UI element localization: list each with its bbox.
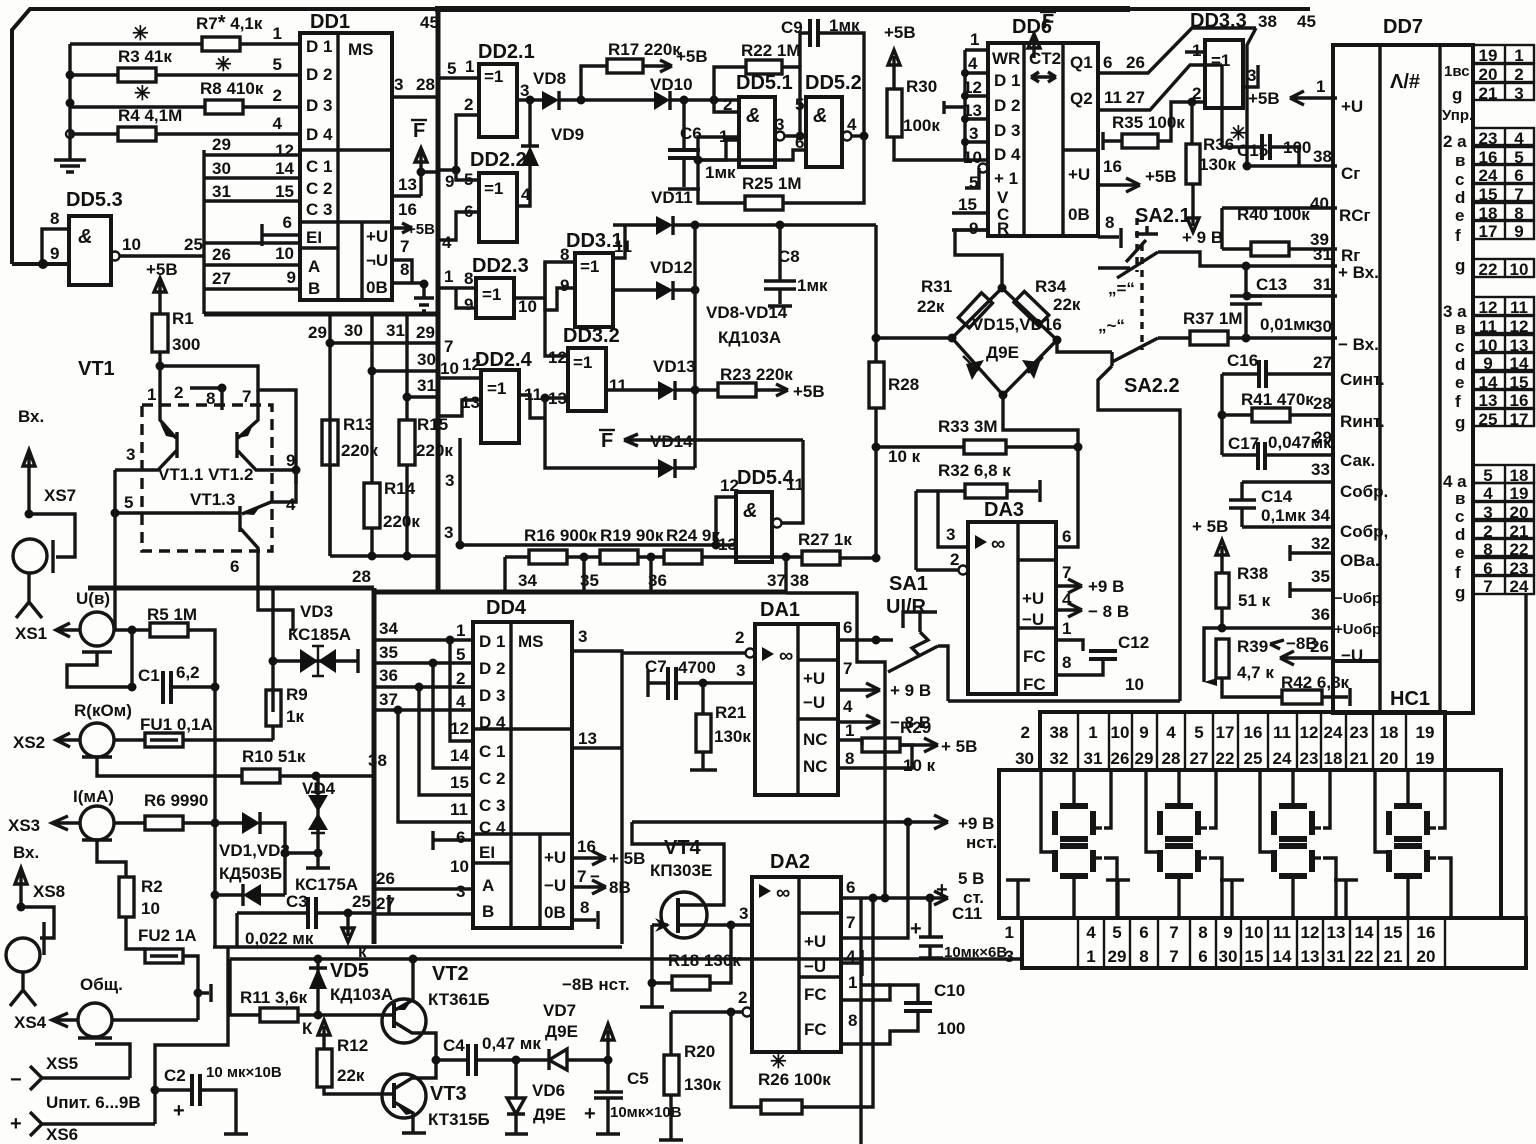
svg-text:FC: FC — [1023, 647, 1046, 666]
svg-text:2: 2 — [174, 383, 183, 402]
svg-text:+5В: +5В — [676, 47, 708, 66]
svg-text:22к: 22к — [1053, 295, 1081, 314]
svg-text:1: 1 — [1514, 46, 1523, 65]
pin box 11|12 — [1473, 316, 1534, 333]
pin box 2|21 — [1473, 521, 1534, 538]
svg-text:R3 41к: R3 41к — [118, 47, 172, 66]
svg-text:1: 1 — [845, 721, 854, 740]
svg-text:VT1.1 VT1.2: VT1.1 VT1.2 — [158, 465, 253, 484]
svg-text:C4: C4 — [443, 1036, 465, 1055]
svg-text:R23 220к: R23 220к — [720, 365, 793, 384]
svg-text:+U: +U — [1341, 97, 1363, 116]
svg-text:+U: +U — [1022, 589, 1044, 608]
svg-text:C 4: C 4 — [479, 818, 506, 837]
svg-text:35: 35 — [379, 643, 398, 662]
7-segment digit 4 — [1394, 803, 1422, 809]
svg-text:Д9Е: Д9Е — [986, 343, 1019, 362]
svg-text:8: 8 — [464, 269, 473, 288]
svg-text:220к: 220к — [341, 441, 378, 460]
svg-text:220к: 220к — [383, 512, 420, 531]
svg-text:„~“: „~“ — [1098, 316, 1125, 335]
svg-text:=1: =1 — [484, 67, 503, 86]
svg-text:2: 2 — [464, 95, 473, 114]
svg-text:15: 15 — [275, 182, 294, 201]
svg-text:29: 29 — [1135, 749, 1154, 768]
pin box 8|22 — [1473, 539, 1534, 556]
svg-text:D 3: D 3 — [306, 96, 332, 115]
svg-text:24: 24 — [1324, 723, 1343, 742]
svg-text:C17: C17 — [1228, 434, 1259, 453]
svg-text:DD2.4: DD2.4 — [475, 349, 533, 371]
svg-text:35: 35 — [1311, 567, 1330, 586]
svg-text:f: f — [1455, 563, 1461, 582]
pin box 25|17 — [1473, 409, 1534, 426]
svg-text:R9: R9 — [286, 685, 308, 704]
svg-text:3: 3 — [394, 75, 403, 94]
svg-text:R31: R31 — [921, 277, 952, 296]
svg-text:Сг: Сг — [1341, 164, 1360, 183]
K arrow down — [342, 913, 354, 942]
svg-text:Собр,: Собр, — [1340, 522, 1388, 541]
svg-text:−U: −U — [803, 693, 825, 712]
svg-text:SA2.2: SA2.2 — [1124, 375, 1180, 397]
svg-text:13: 13 — [963, 101, 982, 120]
svg-text:−U: −U — [804, 957, 826, 976]
top border thick bar — [435, 6, 1130, 12]
svg-text:12: 12 — [1510, 317, 1529, 336]
svg-text:1: 1 — [147, 385, 156, 404]
svg-text:38: 38 — [790, 571, 809, 590]
svg-text:R6 9990: R6 9990 — [144, 791, 208, 810]
svg-text:11: 11 — [1273, 723, 1291, 742]
svg-text:4: 4 — [1166, 723, 1176, 742]
wire VT1 top rail — [160, 366, 296, 484]
resistor R3 — [70, 73, 118, 76]
svg-text:4: 4 — [1086, 923, 1096, 942]
svg-text:12: 12 — [720, 476, 739, 495]
svg-text:Сак.: Сак. — [1340, 451, 1375, 470]
svg-text:0,1мк: 0,1мк — [1261, 506, 1306, 525]
svg-text:26: 26 — [212, 245, 231, 264]
svg-text:R41 470к: R41 470к — [1241, 390, 1314, 409]
node — [66, 71, 75, 80]
svg-text:D 4: D 4 — [306, 125, 333, 144]
svg-text:B: B — [482, 902, 494, 921]
svg-text:EI: EI — [306, 228, 322, 247]
svg-text:10мк×6В: 10мк×6В — [944, 944, 1007, 961]
svg-text:19: 19 — [1416, 723, 1435, 742]
svg-text:3: 3 — [736, 661, 745, 680]
svg-text:нст.: нст. — [966, 833, 997, 852]
svg-text:23: 23 — [1350, 723, 1369, 742]
transistor VT1.1 — [115, 366, 177, 470]
svg-text:∞: ∞ — [779, 645, 793, 667]
svg-text:&: & — [78, 226, 92, 248]
resistor R15 — [399, 420, 415, 465]
svg-text:2 a: 2 a — [1443, 132, 1467, 151]
top border right segment — [1130, 7, 1310, 11]
section boundary — [88, 586, 374, 591]
pin box 9|14 — [1473, 353, 1534, 370]
svg-text:F: F — [413, 120, 425, 142]
pin box 16|5 — [1473, 147, 1534, 164]
svg-text:R30: R30 — [906, 77, 937, 96]
svg-text:+5В: +5В — [1248, 89, 1280, 108]
svg-text:8: 8 — [50, 209, 59, 228]
transistor VT1.2 — [237, 390, 296, 470]
svg-text:+5В: +5В — [884, 23, 916, 42]
svg-text:EI: EI — [479, 843, 495, 862]
pin box 22|10 — [1473, 259, 1534, 277]
svg-text:2: 2 — [273, 86, 282, 105]
common electrodes — [1006, 880, 1030, 918]
svg-text:1вс: 1вс — [1444, 63, 1470, 80]
svg-text:6,2: 6,2 — [176, 663, 200, 682]
svg-text:D 4: D 4 — [994, 145, 1021, 164]
svg-text:2: 2 — [950, 550, 959, 569]
svg-text:XS8: XS8 — [33, 882, 65, 901]
section frame around DA2 — [438, 590, 786, 595]
svg-text:SA1: SA1 — [889, 573, 928, 595]
svg-text:26: 26 — [376, 869, 395, 888]
svg-text:10: 10 — [122, 235, 141, 254]
svg-text:R14: R14 — [384, 479, 416, 498]
svg-text:11: 11 — [1104, 88, 1122, 107]
svg-text:11: 11 — [614, 237, 632, 256]
svg-text:g: g — [1455, 413, 1465, 432]
WR contact — [944, 101, 965, 114]
svg-text:C3: C3 — [286, 892, 308, 911]
pin box 23|4 — [1473, 128, 1534, 145]
svg-text:C11: C11 — [952, 904, 982, 923]
svg-text:4: 4 — [1483, 484, 1493, 503]
svg-text:14: 14 — [275, 159, 294, 178]
svg-text:3: 3 — [969, 124, 978, 143]
svg-text:31: 31 — [417, 376, 436, 395]
svg-text:3: 3 — [444, 523, 453, 542]
svg-text:в: в — [1455, 489, 1465, 508]
svg-text:+U: +U — [1068, 165, 1090, 184]
svg-text:RCг: RCг — [1339, 206, 1371, 225]
svg-text:130к: 130к — [1199, 155, 1236, 174]
svg-text:&: & — [813, 105, 827, 127]
svg-text:C10: C10 — [934, 981, 965, 1000]
svg-text:37: 37 — [767, 571, 786, 590]
svg-text:Rинт.: Rинт. — [1340, 412, 1385, 431]
svg-text:+5В: +5В — [1145, 167, 1177, 186]
svg-text:38: 38 — [368, 751, 387, 770]
HC1 top pin strip — [1040, 712, 1445, 770]
svg-text:DD5.2: DD5.2 — [805, 72, 862, 94]
SA2.2 common riser — [1098, 366, 1180, 701]
svg-text:R12: R12 — [337, 1036, 368, 1055]
svg-text:4,7 к: 4,7 к — [1237, 663, 1274, 682]
svg-text:Q1: Q1 — [1070, 53, 1093, 72]
svg-text:DA1: DA1 — [760, 599, 800, 621]
svg-text:+ 1: + 1 — [994, 169, 1018, 188]
svg-text:DD7: DD7 — [1383, 16, 1423, 38]
svg-text:14: 14 — [1273, 947, 1292, 966]
svg-text:29: 29 — [308, 323, 327, 342]
diode VD1 — [242, 812, 260, 834]
pin box 12|11 — [1473, 297, 1534, 315]
pin box 24|6 — [1473, 165, 1534, 183]
svg-text:R32 6,8 к: R32 6,8 к — [938, 461, 1011, 480]
svg-text:−U: −U — [1341, 646, 1363, 665]
7-segment digit 1 — [1060, 803, 1088, 809]
EI stub — [262, 224, 300, 246]
svg-text:7: 7 — [1169, 947, 1178, 966]
svg-text:+: + — [173, 1100, 185, 1122]
svg-text:e: e — [1455, 206, 1464, 225]
svg-text:+: + — [936, 879, 948, 901]
rail +9V nst — [230, 959, 260, 1015]
svg-text:11: 11 — [609, 376, 627, 395]
svg-text:16: 16 — [1510, 391, 1529, 410]
svg-text:DD2.1: DD2.1 — [478, 41, 535, 63]
svg-text:NC: NC — [803, 730, 828, 749]
svg-text:29: 29 — [1108, 947, 1127, 966]
svg-text:0,01мк: 0,01мк — [1260, 315, 1315, 334]
bridge left wire — [876, 336, 952, 339]
svg-text:2: 2 — [738, 988, 747, 1007]
svg-text:КД503Б: КД503Б — [219, 864, 282, 883]
svg-text:3: 3 — [1005, 947, 1014, 966]
svg-text:e: e — [1455, 373, 1464, 392]
svg-text:C16: C16 — [1227, 351, 1258, 370]
svg-text:6: 6 — [1139, 923, 1148, 942]
svg-text:g: g — [1452, 85, 1462, 104]
svg-text:9: 9 — [1223, 923, 1232, 942]
pin box 21|3 — [1473, 83, 1534, 100]
svg-text:23: 23 — [1300, 749, 1319, 768]
svg-text:R17 220к: R17 220к — [608, 40, 681, 59]
svg-text:+5В: +5В — [407, 221, 435, 238]
svg-text:28: 28 — [1313, 394, 1332, 413]
svg-text:g: g — [1455, 256, 1465, 275]
svg-text:R4 4,1М: R4 4,1М — [118, 106, 182, 125]
svg-text:КД103А: КД103А — [330, 985, 393, 1004]
svg-text:25: 25 — [184, 235, 203, 254]
svg-text:5: 5 — [124, 493, 133, 512]
pin box 13|16 — [1473, 390, 1534, 408]
svg-text:0В: 0В — [544, 903, 566, 922]
svg-text:C 1: C 1 — [306, 157, 332, 176]
svg-text:MS: MS — [348, 40, 374, 59]
svg-text:1: 1 — [456, 621, 465, 640]
svg-text:9: 9 — [50, 244, 59, 263]
svg-text:21: 21 — [1350, 749, 1369, 768]
svg-text:DD1: DD1 — [310, 11, 350, 33]
svg-text:20: 20 — [1380, 749, 1399, 768]
svg-text:29: 29 — [212, 135, 231, 154]
svg-text:VD13: VD13 — [653, 357, 696, 376]
svg-text:∞: ∞ — [991, 533, 1005, 555]
svg-text:D 3: D 3 — [994, 121, 1020, 140]
svg-text:DD3.2: DD3.2 — [563, 325, 620, 347]
svg-text:13: 13 — [578, 729, 597, 748]
svg-text:27: 27 — [1126, 88, 1145, 107]
svg-text:7: 7 — [1483, 577, 1492, 596]
transistor VT1.3 — [240, 470, 296, 631]
svg-text:10: 10 — [518, 297, 537, 316]
svg-text:16: 16 — [1244, 723, 1263, 742]
svg-text:15: 15 — [958, 195, 977, 214]
svg-text:R37 1М: R37 1М — [1183, 309, 1243, 328]
svg-text:Вх.: Вх. — [13, 843, 39, 862]
svg-text:13: 13 — [1327, 923, 1346, 942]
svg-text:36: 36 — [379, 666, 398, 685]
svg-text:4: 4 — [843, 697, 853, 716]
svg-text:Uпит. 6...9В: Uпит. 6...9В — [46, 1093, 141, 1112]
svg-text:6: 6 — [1103, 53, 1112, 72]
svg-text:Λ/#: Λ/# — [1390, 71, 1420, 93]
svg-text:+ 9 В: + 9 В — [1182, 228, 1223, 247]
svg-text:5 В: 5 В — [958, 869, 984, 888]
svg-text:DD2.2: DD2.2 — [470, 149, 527, 171]
svg-text:22: 22 — [1510, 540, 1529, 559]
svg-text:✳: ✳ — [215, 54, 232, 76]
svg-text:27: 27 — [1190, 749, 1209, 768]
DD1 left channel — [202, 150, 205, 314]
svg-text:38: 38 — [1050, 723, 1069, 742]
svg-text:2: 2 — [1192, 84, 1201, 103]
svg-text:Синт.: Синт. — [1340, 370, 1385, 389]
svg-text:− Вх.: − Вх. — [1338, 335, 1379, 354]
svg-text:R22 1М: R22 1М — [741, 41, 801, 60]
svg-text:C5: C5 — [627, 1069, 649, 1088]
svg-text:+Uобр: +Uобр — [1334, 621, 1381, 638]
svg-text:C 3: C 3 — [306, 200, 332, 219]
node — [66, 99, 75, 108]
pin box 17|9 — [1473, 221, 1534, 239]
svg-text:10 к: 10 к — [903, 756, 936, 775]
XS1 sleeve — [67, 652, 132, 687]
svg-text:0В: 0В — [366, 278, 388, 297]
svg-text:WR: WR — [992, 49, 1020, 68]
svg-text:1: 1 — [970, 30, 979, 49]
svg-text:C14: C14 — [1261, 487, 1293, 506]
svg-text:DD4: DD4 — [486, 597, 527, 619]
svg-text:R5 1М: R5 1М — [147, 605, 197, 624]
svg-text:C12: C12 — [1118, 633, 1149, 652]
svg-text:0В: 0В — [1068, 205, 1090, 224]
svg-text:6: 6 — [1198, 947, 1207, 966]
svg-text:U(в): U(в) — [76, 589, 110, 608]
svg-text:+U: +U — [544, 848, 566, 867]
svg-text:R25 1М: R25 1М — [742, 174, 802, 193]
svg-text:+U: +U — [804, 932, 826, 951]
outer frame top-left — [12, 9, 438, 264]
svg-text:7: 7 — [1514, 185, 1523, 204]
svg-text:34: 34 — [518, 571, 537, 590]
svg-text:VT3: VT3 — [430, 1083, 467, 1105]
svg-text:11: 11 — [450, 800, 468, 819]
svg-text:300: 300 — [172, 335, 200, 354]
7-segment digit 2 — [1165, 803, 1193, 809]
svg-text:R(кОм): R(кОм) — [74, 701, 132, 720]
svg-text:8: 8 — [580, 898, 589, 917]
pin box 4|19 — [1473, 483, 1534, 501]
svg-text:6: 6 — [230, 557, 239, 576]
svg-text:5: 5 — [1194, 723, 1203, 742]
svg-text:−: − — [10, 1069, 22, 1091]
svg-text:VD3: VD3 — [300, 602, 333, 621]
bridge top wire — [955, 230, 1002, 288]
svg-text:+: + — [10, 1113, 22, 1135]
svg-text:R10 51к: R10 51к — [242, 747, 306, 766]
svg-text:27: 27 — [376, 894, 395, 913]
svg-text:45: 45 — [420, 13, 439, 32]
svg-text:18: 18 — [1380, 723, 1399, 742]
svg-text:8: 8 — [848, 1011, 857, 1030]
svg-text:31: 31 — [1313, 245, 1332, 264]
rail +9V to DA2 — [632, 820, 908, 823]
svg-text:C 2: C 2 — [306, 179, 332, 198]
svg-text:VT1: VT1 — [78, 358, 115, 380]
pin box 18|8 — [1473, 203, 1534, 220]
pin box 6|23 — [1473, 558, 1534, 575]
svg-text:28: 28 — [1162, 749, 1181, 768]
svg-text:+ 9 В: + 9 В — [890, 681, 931, 700]
svg-text:✳: ✳ — [132, 23, 149, 45]
svg-text:4: 4 — [442, 233, 452, 252]
ground — [54, 152, 86, 172]
svg-text:12: 12 — [963, 78, 982, 97]
svg-text:15: 15 — [1479, 185, 1498, 204]
svg-text:1: 1 — [1005, 923, 1014, 942]
svg-text:1мк: 1мк — [797, 276, 828, 295]
svg-text:10: 10 — [1510, 260, 1529, 279]
svg-text:2: 2 — [735, 628, 744, 647]
svg-text:R27 1к: R27 1к — [798, 530, 852, 549]
svg-text:27: 27 — [1313, 353, 1332, 372]
svg-text:30: 30 — [344, 321, 363, 340]
svg-text:12: 12 — [1301, 923, 1320, 942]
svg-text:30: 30 — [1015, 749, 1034, 768]
svg-text:R24 9к: R24 9к — [666, 526, 720, 545]
svg-text:XS5: XS5 — [46, 1054, 78, 1073]
svg-text:20: 20 — [1479, 65, 1498, 84]
svg-text:11: 11 — [1510, 298, 1528, 317]
resistor R1 — [152, 314, 168, 352]
7-segment digit 3 — [1279, 803, 1307, 809]
svg-text:C 3: C 3 — [479, 796, 505, 815]
svg-text:D 2: D 2 — [994, 96, 1020, 115]
svg-text:26: 26 — [1310, 637, 1329, 656]
svg-text:6: 6 — [1514, 166, 1523, 185]
svg-text:c: c — [1455, 170, 1464, 189]
svg-text:XS2: XS2 — [13, 733, 45, 752]
svg-text:9: 9 — [1483, 354, 1492, 373]
svg-text:12: 12 — [462, 355, 481, 374]
svg-text:220к: 220к — [416, 441, 453, 460]
svg-text:31: 31 — [1084, 749, 1103, 768]
svg-text:0,47 мк: 0,47 мк — [482, 1034, 541, 1053]
svg-text:R13: R13 — [343, 415, 374, 434]
svg-text:40: 40 — [1310, 194, 1329, 213]
svg-text:30: 30 — [1313, 317, 1332, 336]
svg-text:6: 6 — [456, 828, 465, 847]
svg-text:DD3.3: DD3.3 — [1190, 10, 1247, 32]
svg-text:10: 10 — [1111, 723, 1130, 742]
svg-text:в: в — [1455, 151, 1465, 170]
svg-text:6: 6 — [846, 878, 855, 897]
svg-text:30: 30 — [1219, 947, 1238, 966]
svg-text:34: 34 — [379, 619, 398, 638]
resistor R14 — [364, 483, 380, 528]
svg-text:33: 33 — [1311, 460, 1330, 479]
